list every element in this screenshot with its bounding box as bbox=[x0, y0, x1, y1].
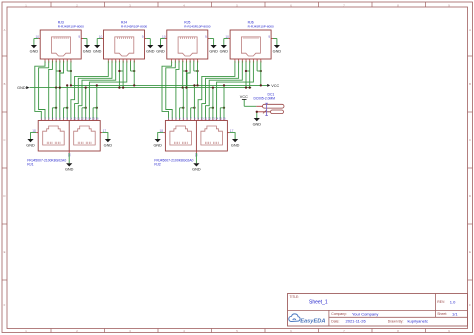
wire T7 bbox=[66, 61, 68, 71]
wire pin18 RJ1 to GND bbox=[31, 133, 37, 139]
svg-text:E: E bbox=[4, 250, 6, 254]
ground flag left of RJ5 bbox=[157, 45, 163, 48]
svg-text:Sheet:: Sheet: bbox=[437, 312, 447, 316]
connector RJ2 FRJ45007-2100K8G02A0 dual jack bbox=[165, 121, 227, 152]
svg-text:RJ1: RJ1 bbox=[27, 162, 33, 166]
svg-text:GND: GND bbox=[93, 49, 102, 53]
svg-text:GND: GND bbox=[83, 49, 92, 53]
VCC rail wire bbox=[71, 84, 267, 86]
pin 9 of RJ3 bbox=[81, 38, 83, 40]
wire B15 bbox=[92, 108, 94, 119]
bottom pins 1-8 of RJ3 bbox=[44, 59, 46, 61]
wire T7 bbox=[193, 61, 195, 71]
svg-text:9: 9 bbox=[268, 35, 270, 39]
svg-text:9: 9 bbox=[78, 35, 80, 39]
wire T6-B6 bbox=[187, 61, 190, 119]
wire B12 bbox=[81, 108, 83, 119]
ground flag bottom of RJ1 bbox=[66, 163, 72, 166]
svg-text:GND: GND bbox=[209, 49, 218, 53]
join T7-T8 bbox=[194, 70, 198, 72]
bottom pins 1-8 of RJ6 bbox=[234, 59, 236, 61]
connector RJ1 FRJ45007-2100K8G02A0 dual jack bbox=[38, 121, 100, 152]
svg-text:VCC: VCC bbox=[271, 84, 279, 88]
svg-text:GND: GND bbox=[156, 49, 165, 53]
wire T8 to VCC rail bbox=[70, 61, 72, 86]
svg-text:RJ2: RJ2 bbox=[154, 162, 160, 166]
svg-text:A: A bbox=[4, 28, 6, 32]
wire B16 to VCC rail bbox=[223, 85, 225, 118]
svg-text:TITLE:: TITLE: bbox=[290, 295, 300, 299]
wire B4 bbox=[179, 108, 181, 119]
svg-text:1/1: 1/1 bbox=[452, 311, 458, 316]
wire pin10 RJ5 to GND bbox=[161, 38, 165, 40]
wire T3-B3 bbox=[176, 61, 179, 119]
svg-text:GND: GND bbox=[65, 168, 74, 172]
wire pin10 RJ6 to GND bbox=[224, 38, 228, 40]
svg-text:R-RJ45R10P-8000: R-RJ45R10P-8000 bbox=[121, 25, 147, 29]
wire T7 bbox=[256, 61, 258, 71]
pin 17 of RJ1 bbox=[100, 132, 102, 134]
svg-text:GND: GND bbox=[26, 143, 35, 147]
wire T5 to GND rail bbox=[122, 61, 124, 88]
wire VCC to DC1 pin1 bbox=[244, 105, 256, 107]
svg-text:16: 16 bbox=[223, 116, 226, 120]
join B7-B8 bbox=[64, 107, 68, 109]
join T4-T5 bbox=[246, 70, 250, 72]
wire T6-B6 bbox=[60, 61, 64, 119]
wire T1-B9 bbox=[198, 61, 235, 119]
wire DC1 sleeve to GND bbox=[256, 112, 258, 118]
bottom pins 1-8 of RJ5 bbox=[171, 59, 173, 61]
wire T1-B1 bbox=[162, 61, 172, 119]
ground flag below DC1 bbox=[254, 118, 260, 121]
wire T2-B2 bbox=[166, 61, 176, 119]
svg-text:C: C bbox=[4, 138, 6, 142]
join B12-B13 bbox=[82, 107, 86, 109]
wire pin10 RJ3 to GND bbox=[34, 38, 38, 40]
pin 9 of RJ4 bbox=[145, 38, 147, 40]
wire B13 to GND rail bbox=[212, 88, 214, 119]
wire T4 to GND rail bbox=[245, 61, 247, 88]
join B12-B13 bbox=[209, 107, 213, 109]
svg-text:C: C bbox=[469, 138, 471, 142]
svg-text:R-RJ45R10P-8000: R-RJ45R10P-8000 bbox=[184, 25, 210, 29]
wire B8 to VCC rail bbox=[193, 85, 195, 118]
pin 18 of RJ2 bbox=[163, 132, 165, 134]
wire B13 to GND rail bbox=[85, 88, 87, 119]
wire T8 to VCC rail bbox=[197, 61, 199, 86]
wire T2-B10 bbox=[75, 61, 112, 119]
wire pin21 RJ2 to GND bbox=[195, 153, 197, 163]
wire T4 to GND rail bbox=[55, 61, 57, 88]
wire B8 to VCC rail bbox=[66, 85, 68, 118]
svg-text:16: 16 bbox=[96, 116, 99, 120]
svg-text:GND: GND bbox=[17, 86, 26, 90]
svg-text:GND: GND bbox=[273, 49, 282, 53]
svg-text:D: D bbox=[4, 194, 6, 198]
svg-text:B: B bbox=[469, 82, 471, 86]
wire pin10 RJ4 to GND bbox=[97, 38, 101, 40]
wire pin9 RJ4 to GND bbox=[146, 38, 150, 40]
join B15-B16 bbox=[220, 107, 224, 109]
ground flag left of RJ2 bbox=[155, 139, 161, 142]
svg-text:9: 9 bbox=[142, 35, 144, 39]
ground flag left of RJ1 bbox=[27, 139, 33, 142]
wire B4 bbox=[51, 108, 53, 119]
join T7-T8 bbox=[131, 70, 135, 72]
join B7-B8 bbox=[191, 107, 195, 109]
top pins 1-16 of RJ1 bbox=[40, 119, 42, 121]
svg-text:B: B bbox=[4, 82, 6, 86]
pin 10 of RJ5 bbox=[165, 38, 167, 40]
join T4-T5 bbox=[183, 70, 187, 72]
ground flag left of RJ3 bbox=[31, 45, 37, 48]
ground flag right of RJ4 bbox=[147, 45, 153, 48]
svg-text:Drawn By:: Drawn By: bbox=[388, 319, 404, 323]
svg-text:Company:: Company: bbox=[331, 312, 347, 316]
svg-text:GND: GND bbox=[231, 143, 240, 147]
ground flag right of RJ6 bbox=[274, 45, 280, 48]
pin 18 of RJ1 bbox=[36, 132, 38, 134]
wire T3-B3 bbox=[49, 61, 53, 119]
wire pin18 RJ2 to GND bbox=[158, 133, 164, 139]
wire pin9 RJ3 to GND bbox=[83, 38, 87, 40]
svg-text:REV:: REV: bbox=[437, 300, 445, 304]
wire T7 bbox=[130, 61, 132, 71]
wire T5 to GND rail bbox=[59, 61, 61, 88]
wire pin17 RJ2 to GND bbox=[229, 133, 235, 139]
DC1 switch pin bbox=[266, 103, 268, 115]
ground flag right of RJ2 bbox=[232, 139, 238, 142]
join T7-T8 bbox=[257, 70, 261, 72]
pin 21 of RJ1 bbox=[68, 151, 70, 153]
svg-text:E: E bbox=[469, 250, 471, 254]
wire T8 to VCC rail bbox=[133, 61, 135, 86]
wire T2-B2 bbox=[39, 61, 49, 119]
wire B16 to VCC rail bbox=[96, 85, 98, 118]
wire T8 to VCC rail bbox=[260, 61, 262, 86]
svg-text:GND: GND bbox=[192, 168, 201, 172]
svg-text:VCC: VCC bbox=[240, 95, 248, 99]
join B4-B5 bbox=[180, 107, 184, 109]
wire B7 bbox=[63, 108, 65, 119]
ground flag bottom of RJ2 bbox=[193, 163, 199, 166]
wire T4 to GND rail bbox=[118, 61, 120, 88]
pin 9 of RJ6 bbox=[271, 38, 273, 40]
wire T1-B9 bbox=[71, 61, 108, 119]
svg-text:Sheet_1: Sheet_1 bbox=[309, 300, 328, 306]
top pins 1-16 of RJ2 bbox=[168, 119, 170, 121]
wire T3-B11 bbox=[78, 61, 115, 119]
wire B5 to GND rail bbox=[55, 88, 57, 119]
wire B12 bbox=[208, 108, 210, 119]
wire B15 bbox=[219, 108, 221, 119]
join T7-T8 bbox=[67, 70, 71, 72]
join B4-B5 bbox=[52, 107, 56, 109]
svg-text:GND: GND bbox=[253, 122, 262, 126]
svg-text:D: D bbox=[469, 194, 471, 198]
svg-text:R-RJ45R10P-8000: R-RJ45R10P-8000 bbox=[58, 25, 84, 29]
pin 10 of RJ4 bbox=[102, 38, 104, 40]
svg-text:Date:: Date: bbox=[331, 319, 339, 323]
svg-text:GND: GND bbox=[153, 143, 162, 147]
pin 10 of RJ3 bbox=[38, 38, 40, 40]
pin 10 of RJ6 bbox=[228, 38, 230, 40]
VCC net flag right bbox=[267, 84, 270, 87]
svg-text:GND: GND bbox=[220, 49, 229, 53]
EasyEDA logo bbox=[289, 314, 300, 322]
title block bbox=[288, 294, 468, 327]
pin 9 of RJ5 bbox=[208, 38, 210, 40]
pin 21 of RJ2 bbox=[195, 151, 197, 153]
wire pin9 RJ6 to GND bbox=[273, 38, 277, 40]
ground flag right of RJ3 bbox=[84, 45, 90, 48]
ground flag left of RJ4 bbox=[94, 45, 100, 48]
pin 17 of RJ2 bbox=[227, 132, 229, 134]
join B15-B16 bbox=[93, 107, 97, 109]
GND rail wire bbox=[30, 87, 252, 89]
svg-text:A: A bbox=[469, 28, 471, 32]
wire T5 to GND rail bbox=[185, 61, 187, 88]
svg-text:R-RJ45R10P-8000: R-RJ45R10P-8000 bbox=[248, 25, 274, 29]
svg-text:GND: GND bbox=[104, 143, 113, 147]
wire T6-B14 bbox=[89, 61, 126, 119]
wire B7 bbox=[190, 108, 192, 119]
wire pin17 RJ1 to GND bbox=[102, 133, 108, 139]
svg-text:2021-11-26: 2021-11-26 bbox=[346, 319, 367, 324]
wire T4 to GND rail bbox=[182, 61, 184, 88]
svg-text:9: 9 bbox=[205, 35, 207, 39]
ground flag right of RJ1 bbox=[105, 139, 111, 142]
wire pin9 RJ5 to GND bbox=[210, 38, 214, 40]
svg-text:Your Company: Your Company bbox=[352, 311, 378, 316]
wire T6-B14 bbox=[217, 61, 254, 119]
wire B5 to GND rail bbox=[182, 88, 184, 119]
ground flag left of RJ6 bbox=[221, 45, 227, 48]
bottom pins 1-8 of RJ4 bbox=[107, 59, 109, 61]
svg-text:EasyEDA: EasyEDA bbox=[300, 319, 325, 325]
ground flag right of RJ5 bbox=[211, 45, 217, 48]
join T4-T5 bbox=[56, 70, 60, 72]
join T4-T5 bbox=[119, 70, 123, 72]
wire pin21 RJ1 to GND bbox=[68, 153, 70, 163]
svg-text:GND: GND bbox=[146, 49, 155, 53]
wire T5 to GND rail bbox=[249, 61, 251, 88]
svg-text:GND: GND bbox=[30, 49, 39, 53]
wire T3-B11 bbox=[206, 61, 243, 119]
svg-text:DC005-2.0MM: DC005-2.0MM bbox=[254, 97, 276, 101]
svg-text:1.0: 1.0 bbox=[450, 299, 456, 304]
svg-text:kupriyanetc: kupriyanetc bbox=[408, 319, 428, 324]
wire T2-B10 bbox=[202, 61, 239, 119]
wire T1-B1 bbox=[35, 61, 45, 119]
